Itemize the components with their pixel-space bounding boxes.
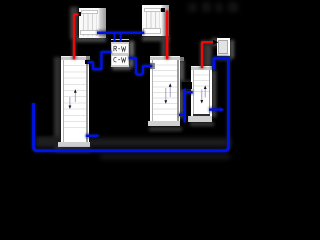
shadow right of condenser box D bbox=[230, 40, 234, 58]
condenser U2 top header bbox=[144, 8, 161, 13]
pipe B6b pump to column C bbox=[185, 91, 193, 93]
stub into box E right port bbox=[120, 34, 122, 42]
shadow band along red pipe R2 bbox=[161, 12, 167, 58]
main cold return bus B10 bbox=[34, 58, 229, 151]
column A (cold tower) bbox=[61, 56, 89, 142]
box E top black bar bbox=[111, 40, 129, 43]
circulation arrows column C bbox=[202, 88, 205, 102]
shadow below heat-exchanger box E bbox=[112, 65, 131, 70]
faint dark band below bus bbox=[100, 154, 230, 159]
shadow band left of column A bbox=[54, 57, 61, 149]
column B trays bbox=[153, 60, 177, 119]
shadow below column B bbox=[149, 127, 182, 132]
column C left wall bbox=[193, 70, 194, 114]
condenser U1 (top-left) bbox=[79, 8, 106, 38]
faint shadow above bus near corner bbox=[36, 137, 60, 146]
hot water pipe R1 bbox=[74, 14, 79, 59]
shadow below column A bbox=[56, 147, 90, 152]
shadow left of condenser U1 bbox=[70, 7, 78, 39]
box E cell R-W bbox=[112, 44, 129, 54]
condenser U1 bottom header bbox=[80, 30, 98, 35]
column C bottom flange bbox=[188, 116, 212, 122]
column B left wall bbox=[152, 60, 153, 121]
shadow right of column C bbox=[212, 70, 217, 117]
cold pipe between condensers B1 bbox=[97, 32, 144, 34]
column B top bar right extension bbox=[180, 57, 185, 61]
column B right wall bbox=[177, 60, 179, 121]
wide dark band above bus bbox=[36, 138, 231, 147]
junction nub on condenser U2 bbox=[161, 8, 166, 13]
hot water pipe R2 bbox=[166, 11, 168, 60]
shadow band along red pipe R3 bbox=[204, 44, 212, 67]
column C right wall bbox=[209, 70, 211, 114]
column A trays bbox=[64, 60, 86, 132]
column A top plate bbox=[61, 56, 89, 60]
pipes SVG overlay bbox=[0, 0, 250, 177]
label R-W in box E row 1 bbox=[114, 46, 126, 51]
column A top bar right extension bbox=[86, 56, 90, 61]
shadow below condenser U1 bbox=[76, 37, 106, 42]
circulation arrows column B bbox=[166, 86, 170, 101]
stub into box E left port bbox=[114, 34, 116, 42]
column A right wall bbox=[86, 60, 88, 142]
box E cell C-W bbox=[112, 56, 129, 65]
cold pipe B4 column A to box E bbox=[88, 52, 112, 69]
column C trays bbox=[194, 70, 209, 96]
product arrow from column C bbox=[209, 108, 220, 110]
shadow right of column B bbox=[179, 60, 184, 118]
condenser U2 bottom header bbox=[143, 28, 161, 34]
junction nub at column A top right bbox=[85, 60, 90, 64]
shadow below column C bbox=[190, 122, 214, 126]
condenser box D (top-right small) bbox=[217, 38, 231, 56]
column B top plate bbox=[150, 56, 180, 60]
faint residue blobs top edge bbox=[188, 3, 197, 12]
circulation arrows column A bbox=[70, 92, 75, 108]
cold pipe B5 box E to column B bbox=[129, 58, 153, 75]
shadow below condenser box D bbox=[218, 56, 232, 60]
column B (hot tower) bbox=[150, 56, 180, 121]
arrowhead of pipe R3 bbox=[213, 40, 218, 45]
column C (stripper) bbox=[191, 66, 212, 116]
pump block at column B right bbox=[182, 82, 192, 89]
grey backdrop behind R3 arrowhead bbox=[212, 38, 218, 46]
pipe B6 pump down to column B bottom bbox=[184, 89, 186, 123]
hot water pipe R3 bbox=[202, 42, 213, 68]
condenser U1 tubes bbox=[83, 13, 97, 36]
heat exchanger box E (R-W / C-W) bbox=[111, 39, 129, 67]
column A sump bbox=[64, 132, 86, 141]
shadow below condenser U2 bbox=[142, 36, 169, 41]
column A left wall bbox=[63, 60, 64, 142]
junction nub at condenser U1 red inlet bbox=[77, 12, 81, 16]
shadow around pump block bbox=[178, 80, 193, 90]
outflow arrow from column A bbox=[86, 135, 97, 137]
column C top plate bbox=[191, 66, 212, 70]
halo copies bbox=[34, 11, 229, 151]
column A bottom flange bbox=[58, 142, 90, 147]
port nub at column B left wall bbox=[150, 63, 156, 69]
shadow right of heat-exchanger box E bbox=[129, 41, 134, 67]
column C bottom dark line bbox=[193, 114, 211, 116]
condenser U2 (top-right) bbox=[142, 5, 169, 36]
column B bottom flange bbox=[148, 121, 181, 126]
condenser U2 tubes bbox=[146, 10, 160, 34]
label C-W in box E row 2 bbox=[114, 57, 126, 62]
condenser U1 top header bbox=[81, 10, 98, 15]
